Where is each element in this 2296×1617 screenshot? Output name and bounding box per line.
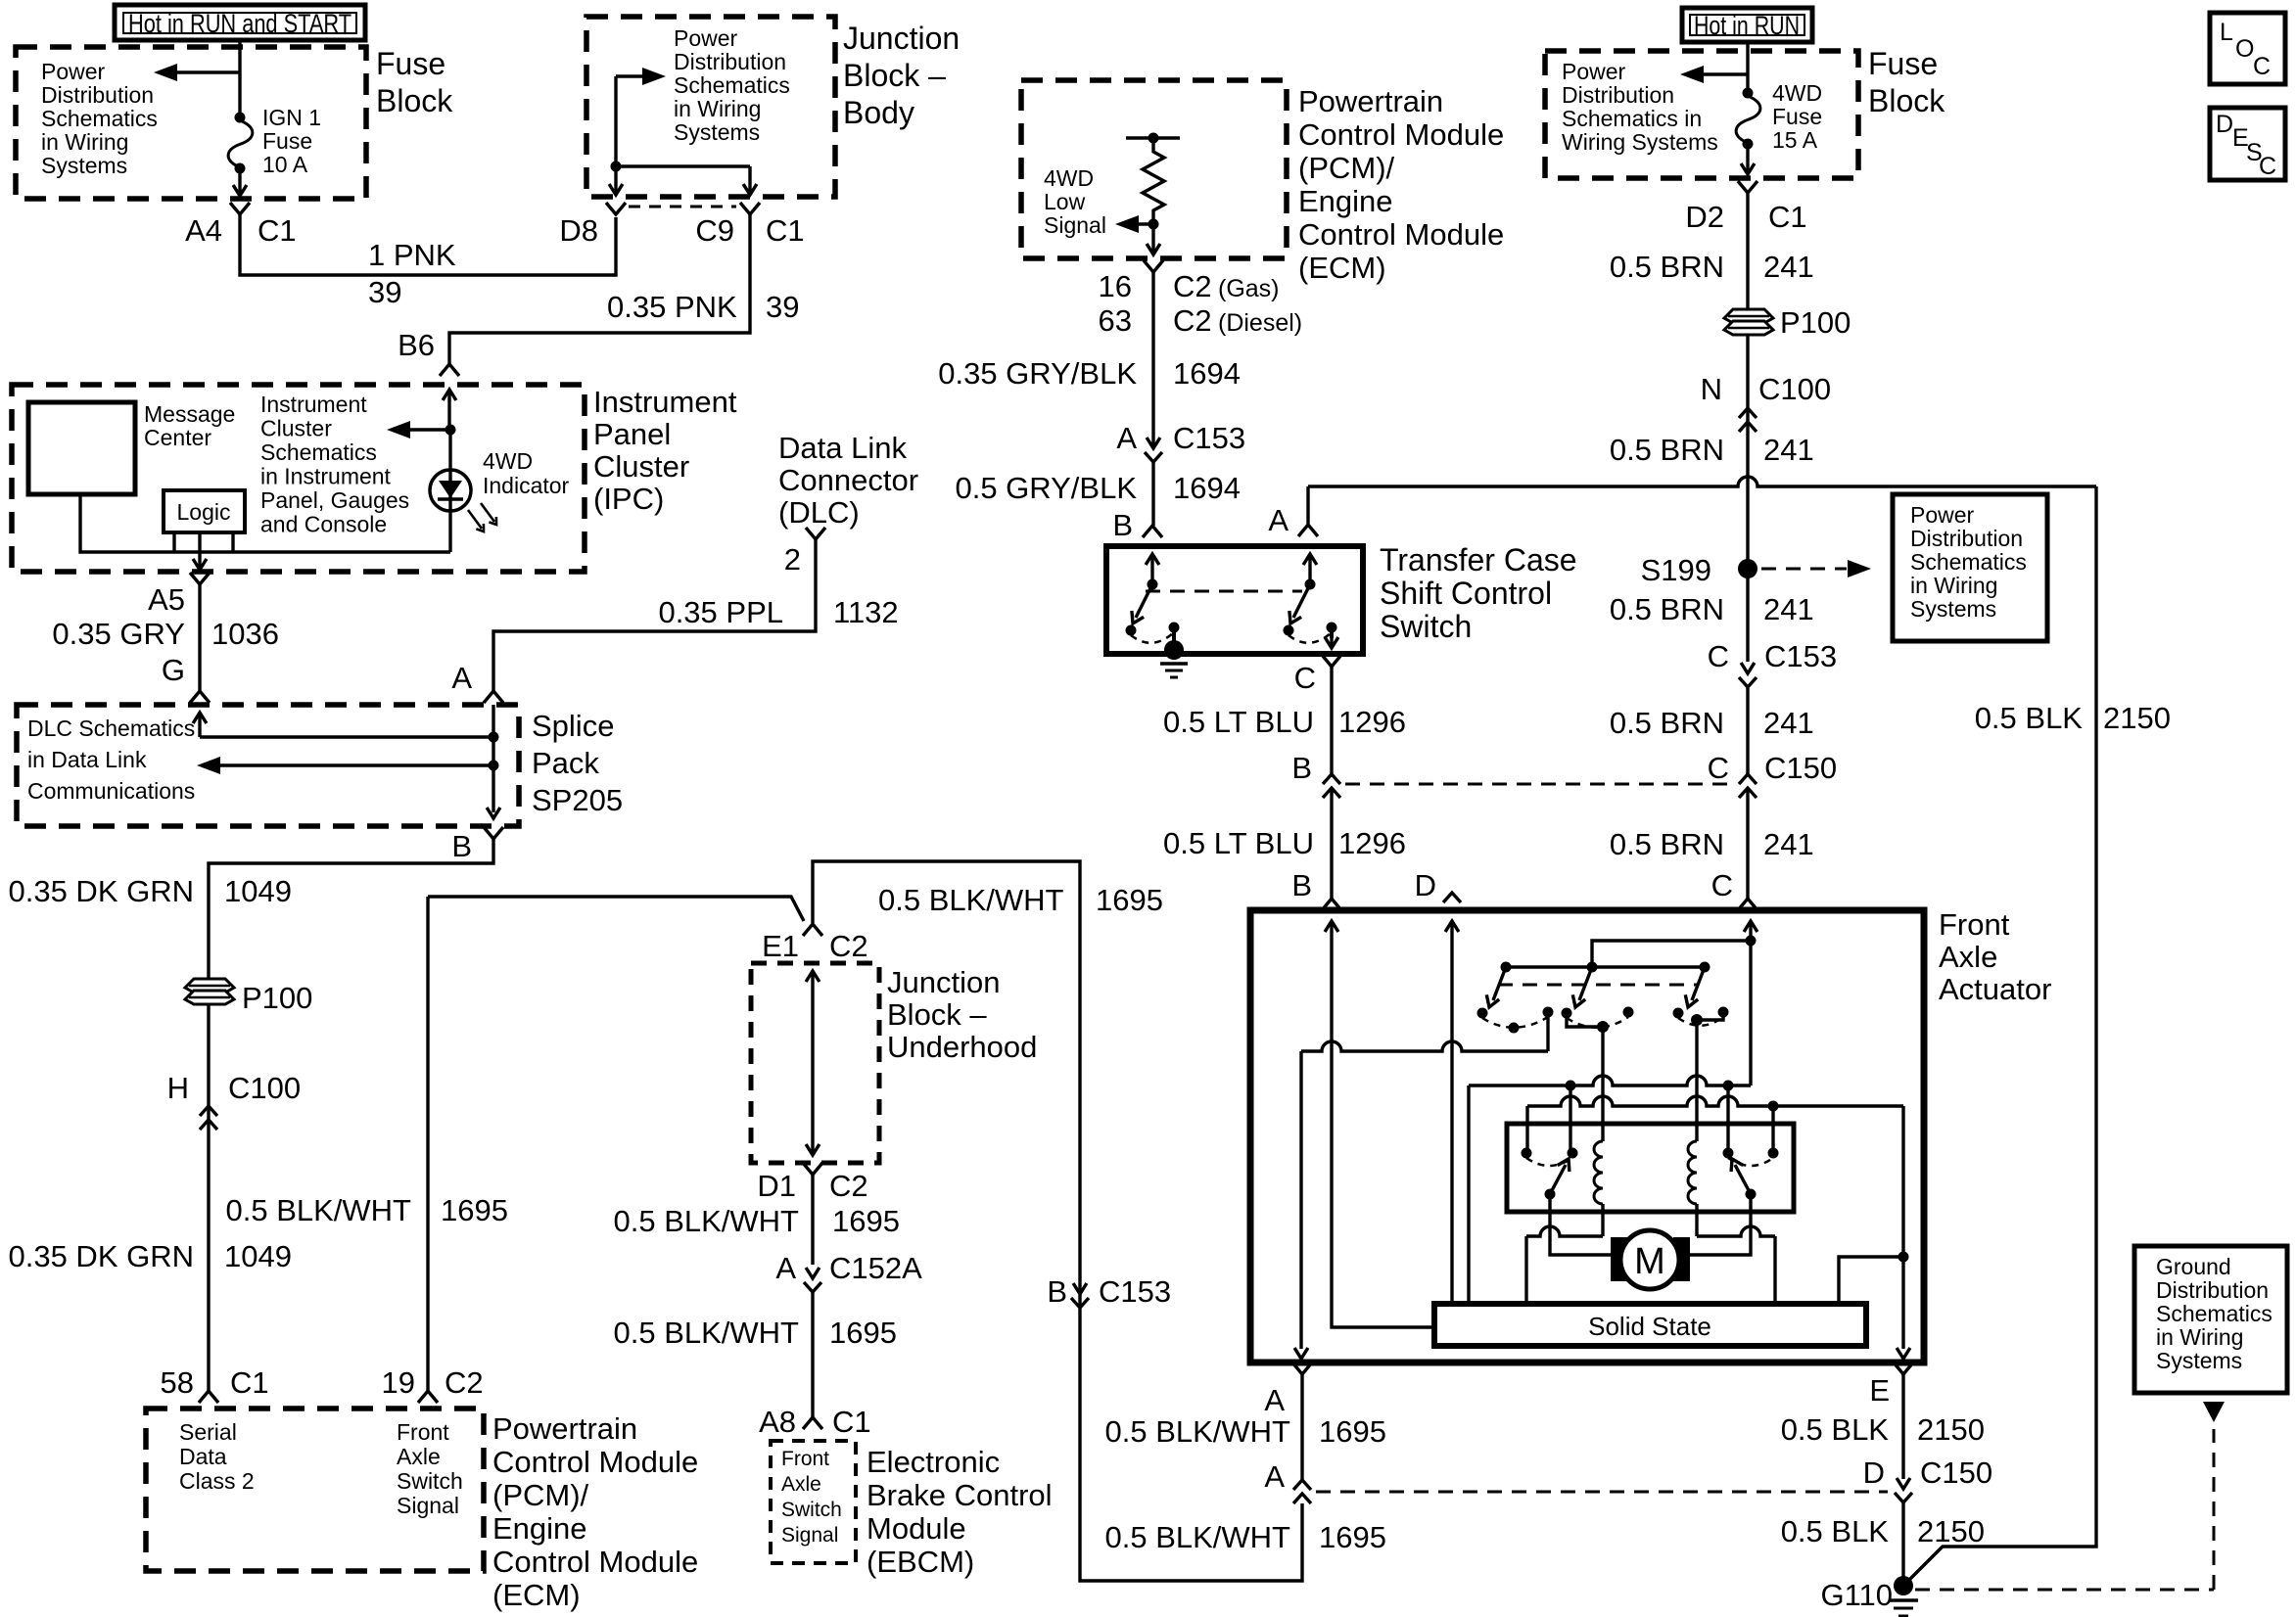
transfer case shift control switch box (1106, 546, 1363, 654)
svg-text:Cluster: Cluster (260, 416, 332, 441)
arrow to 4WD low signal (1115, 215, 1159, 233)
label 58 (161, 1365, 194, 1400)
label 1049 (lower) (224, 1239, 292, 1273)
svg-text:B6: B6 (398, 328, 435, 362)
connector E1 C2 (junction block underhood) (803, 924, 822, 936)
ground distribution schematics box (2134, 1246, 2287, 1393)
pass-through P100 (left) (185, 979, 234, 1004)
svg-text:Engine: Engine (1298, 184, 1393, 218)
switch output C (transfer case) (1325, 627, 1338, 648)
svg-text:Block: Block (376, 83, 453, 118)
svg-text:1036: 1036 (211, 617, 279, 651)
svg-text:in Wiring: in Wiring (2156, 1324, 2243, 1350)
svg-text:O: O (2235, 35, 2254, 63)
label G110 (1820, 1578, 1893, 1612)
dashed connector line C150 bottom (1316, 1491, 1888, 1494)
svg-text:D: D (1415, 868, 1436, 902)
svg-text:Panel, Gauges: Panel, Gauges (260, 487, 409, 513)
svg-text:(PCM)/: (PCM)/ (1298, 151, 1395, 185)
wire 0.5 BRN 241 to actuator C (1746, 788, 1749, 899)
svg-text:(DLC): (DLC) (778, 495, 860, 530)
svg-text:Brake Control: Brake Control (867, 1478, 1053, 1512)
svg-text:A: A (1268, 503, 1289, 537)
label 0.35 PNK (607, 290, 737, 324)
dashed connector line C150 (1345, 783, 1735, 786)
label C2 (PCM pin 19) (445, 1365, 484, 1400)
wire C to switch pivots (1592, 941, 1751, 967)
connector 19 C2 (PCM) (418, 1391, 438, 1403)
rail to solid state (left) (1469, 1076, 1751, 1304)
label 0.5 BLK/WHT (actuator A) (1105, 1414, 1291, 1449)
svg-text:Cluster: Cluster (593, 449, 689, 484)
connector DLC pin 2 (806, 528, 825, 539)
label 1049 (upper) (224, 874, 292, 908)
svg-text:(ECM): (ECM) (1298, 251, 1386, 285)
label 241 (3) (1763, 592, 1814, 626)
svg-text:19: 19 (382, 1365, 415, 1400)
svg-text:241: 241 (1763, 592, 1814, 626)
svg-text:C: C (2259, 153, 2276, 180)
actuator switch 1 (1477, 962, 1554, 1034)
label C (C150 right) (1708, 751, 1729, 785)
label H (167, 1071, 189, 1105)
junction dot at 4WD indicator feed (445, 425, 456, 436)
svg-text:Distribution: Distribution (1562, 82, 1674, 108)
connector D1 C2 (underhood) (803, 1163, 822, 1175)
fuse 4WD 15A symbol (1736, 88, 1760, 150)
svg-text:Power: Power (1562, 59, 1626, 84)
label 0.5 BLK/WHT (E1 horizontal) (878, 883, 1064, 917)
label 241 (1) (1763, 250, 1814, 284)
svg-text:Axle: Axle (397, 1444, 441, 1469)
connector D8 (junction block) (606, 203, 626, 214)
label Junction Block - Underhood (887, 965, 1037, 1064)
powertrain control module dashed box (top) (1021, 80, 1287, 258)
label D8 (559, 213, 598, 248)
wire 1 PNK 39 from A4 to junction block D8 (240, 214, 616, 275)
svg-text:S199: S199 (1641, 553, 1711, 587)
svg-text:2: 2 (784, 542, 801, 577)
wire relay left to motor (1550, 1194, 1611, 1255)
svg-text:58: 58 (161, 1365, 194, 1400)
connector A splice pack (484, 691, 503, 703)
svg-text:Distribution: Distribution (2156, 1277, 2269, 1303)
svg-text:Transfer Case: Transfer Case (1380, 542, 1577, 577)
logic box (164, 490, 245, 532)
junction dot C inner (1746, 936, 1757, 947)
fuse block (left) dashed box (16, 47, 366, 199)
relay switch left (1522, 1148, 1578, 1200)
svg-text:Signal: Signal (397, 1493, 459, 1518)
svg-text:10 A: 10 A (262, 152, 308, 177)
svg-text:A: A (775, 1251, 796, 1285)
svg-text:E: E (1869, 1373, 1890, 1408)
label Solid State (1588, 1312, 1711, 1341)
svg-text:C9: C9 (695, 213, 734, 248)
note Power Distribution Schematics in Wiring Systems (fuse block left) (41, 59, 158, 178)
switch pole A (transfer case) (1284, 554, 1337, 636)
svg-text:(Gas): (Gas) (1218, 275, 1280, 302)
svg-text:Signal: Signal (1044, 212, 1106, 238)
label A4 (185, 213, 222, 248)
svg-text:0.5 BLK: 0.5 BLK (1781, 1514, 1890, 1548)
splice rail with left arrow (197, 757, 493, 774)
splice pack SP205 dashed box (17, 705, 519, 826)
wire 0.5 BLK 2150 from actuator E (1901, 1374, 1904, 1479)
label Fuse Block (left) (376, 46, 453, 118)
label 0.5 BLK/WHT (below C150) (1105, 1520, 1291, 1554)
note Ground Distribution Schematics in Wiring Systems (2156, 1254, 2273, 1373)
label C1 (right) (1768, 200, 1807, 234)
svg-text:A4: A4 (185, 213, 222, 248)
svg-text:A: A (451, 661, 472, 695)
actuator input C arrow (1744, 921, 1757, 1086)
wire message center to logic to indicator (80, 494, 450, 552)
wire resistor output with arrow at PCM edge (1147, 224, 1160, 254)
connector A C150 chevrons (1293, 1480, 1311, 1503)
label Powertrain Control Module (PCM)/Engine Control Module (ECM) top (1298, 84, 1504, 285)
label P100 (left) (242, 981, 312, 1015)
junction block - underhood dashed box (751, 963, 879, 1163)
svg-text:Schematics: Schematics (260, 439, 377, 465)
svg-text:B: B (1112, 508, 1133, 542)
connector C9 C1 (junction block) (740, 203, 760, 214)
svg-text:1049: 1049 (224, 1239, 292, 1273)
svg-text:L: L (2220, 19, 2233, 46)
label A5 (148, 582, 185, 617)
wire right coil to solid state (1697, 1204, 1775, 1304)
svg-text:Front: Front (781, 1448, 829, 1470)
label 16 (1099, 269, 1132, 303)
splice pack bus SP205 (487, 705, 500, 818)
label Data Link Connector (DLC) (778, 431, 918, 530)
svg-text:C1: C1 (258, 213, 297, 248)
svg-text:A: A (1264, 1383, 1285, 1417)
label C1 (EBCM) (832, 1405, 871, 1439)
connector B into actuator (1322, 899, 1341, 910)
svg-text:1694: 1694 (1173, 356, 1241, 391)
svg-text:0.5 BLK/WHT: 0.5 BLK/WHT (614, 1204, 800, 1238)
svg-text:IGN 1: IGN 1 (262, 105, 321, 130)
svg-text:Switch: Switch (781, 1499, 842, 1521)
label Fuse Block (right) (1868, 46, 1945, 118)
label 1132 (833, 595, 899, 629)
connector G into splice pack (190, 691, 210, 703)
svg-text:B: B (1291, 868, 1312, 902)
connector A below actuator (1292, 1363, 1312, 1374)
label 39 (1 PNK) (368, 275, 401, 309)
svg-text:DLC Schematics: DLC Schematics (27, 716, 195, 741)
svg-text:0.5 BRN: 0.5 BRN (1610, 250, 1724, 284)
svg-text:1695: 1695 (441, 1193, 508, 1227)
svg-text:Junction: Junction (843, 21, 960, 56)
relay coil left (1594, 1141, 1603, 1204)
svg-text:Front: Front (1939, 907, 2010, 942)
svg-text:Switch: Switch (1380, 609, 1472, 644)
label C2 (Gas) (1173, 269, 1280, 303)
wire fuse output with arrow at fuse block edge (233, 168, 247, 196)
dashed contact arc A (transfer case) (1289, 632, 1332, 643)
label Splice Pack SP205 (532, 709, 623, 817)
svg-text:1695: 1695 (832, 1204, 900, 1238)
label 0.5 BLK/WHT (pcm19 wire) (226, 1193, 412, 1227)
label 1695 (D1) (832, 1204, 900, 1238)
svg-text:0.5 BRN: 0.5 BRN (1610, 706, 1724, 740)
label 0.5 BRN (2) (1610, 433, 1724, 467)
svg-text:Hot in RUN: Hot in RUN (1694, 11, 1800, 40)
label C2 (Diesel) (1173, 303, 1302, 338)
label 2150 (right) (2103, 701, 2171, 735)
svg-text:Block –: Block – (843, 58, 946, 93)
resistor 4WD low signal (1126, 133, 1180, 225)
svg-text:15 A: 15 A (1772, 127, 1818, 153)
label C153 (branch) (1099, 1274, 1171, 1309)
junction block body internal wires (609, 76, 757, 195)
wire 0.5 BLK 2150 from transfer case A-node to G110 (1308, 477, 2096, 1580)
svg-text:C: C (1294, 661, 1316, 695)
label Front Axle Actuator (1939, 907, 2051, 1006)
svg-text:C150: C150 (1920, 1455, 1992, 1490)
rail to E output (1527, 1096, 1910, 1359)
svg-text:D2: D2 (1685, 200, 1724, 234)
svg-text:D1: D1 (757, 1169, 796, 1203)
svg-text:241: 241 (1763, 250, 1814, 284)
svg-text:N: N (1701, 372, 1722, 406)
note Power Distribution Schematics in Wiring Systems (fuse block right) (1562, 59, 1718, 155)
svg-text:Signal: Signal (781, 1524, 838, 1547)
svg-text:Module: Module (867, 1511, 966, 1546)
label C (actuator input) (1711, 868, 1733, 902)
svg-text:1296: 1296 (1338, 705, 1406, 739)
label 63 (1099, 303, 1132, 338)
label D (C150 bottom) (1863, 1455, 1885, 1490)
wire from Hot in RUN into fuse block (1746, 42, 1749, 93)
svg-text:C153: C153 (1099, 1274, 1171, 1309)
svg-text:Center: Center (144, 425, 211, 450)
svg-text:0.5 BRN: 0.5 BRN (1610, 827, 1724, 861)
label 0.5 BLK (E) (1781, 1412, 1890, 1447)
label 1695 (E1 horizontal) (1096, 883, 1163, 917)
svg-text:Low: Low (1044, 189, 1086, 214)
label 0.35 PPL (658, 595, 783, 629)
svg-text:Communications: Communications (27, 778, 195, 804)
label A (C152A) (775, 1251, 796, 1285)
label B (C153 branch) (1047, 1274, 1067, 1309)
label Powertrain Control Module (PCM)/Engine Control Module (ECM) bottom (492, 1411, 698, 1612)
label A8 (759, 1405, 796, 1439)
splice S199 (1738, 559, 1757, 578)
svg-text:Schematics: Schematics (41, 106, 158, 131)
connector C100 (left) chevrons (200, 1106, 217, 1130)
note 4WD Low Signal (1044, 165, 1106, 238)
label C152A (829, 1251, 922, 1285)
svg-text:Instrument: Instrument (593, 385, 737, 419)
switch pole B (transfer case) (1126, 554, 1180, 636)
actuator switch 3 (1673, 962, 1729, 1026)
label 2150 (G110) (1917, 1514, 1985, 1548)
connector C100 (right) chevrons (1739, 408, 1757, 432)
svg-text:4WD: 4WD (1044, 165, 1094, 191)
label 0.35 DK GRN (lower) (8, 1239, 194, 1273)
label Junction Block - Body (843, 21, 960, 130)
wire 0.5 LT BLU 1296 upper (1330, 667, 1333, 774)
label Logic (177, 499, 231, 525)
power distribution schematics box (solid) (1893, 494, 2047, 641)
svg-text:Solid State: Solid State (1588, 1312, 1711, 1341)
LOC reference box (2210, 13, 2285, 84)
label 0.5 BRN (3) (1610, 592, 1724, 626)
power label box 'Hot in RUN' (1682, 8, 1812, 42)
wire 0.5 BLK 2150 to G110 (1901, 1502, 1904, 1580)
svg-text:Engine: Engine (492, 1511, 587, 1546)
connector A transfer case switch (1298, 525, 1318, 536)
label Message Center (144, 401, 235, 450)
svg-text:0.5 BLK/WHT: 0.5 BLK/WHT (878, 883, 1064, 917)
connector 58 C1 (PCM) (199, 1391, 218, 1403)
note Front Axle Switch Signal (PCM) (397, 1419, 463, 1518)
label 0.35 DK GRN (upper) (8, 874, 194, 908)
wire 0.35 DK GRN 1049 splice B to PCM 58 (209, 839, 493, 979)
label C153 (right) (1764, 639, 1837, 673)
connector A5 (IPC output) (190, 573, 210, 584)
svg-text:Power: Power (674, 25, 738, 51)
svg-text:Message: Message (144, 401, 235, 427)
connector D2 C1 (right fuse block) (1738, 181, 1757, 193)
svg-text:Splice: Splice (532, 709, 614, 743)
wire switch2 to left coil (1567, 1013, 1609, 1141)
svg-text:in Wiring: in Wiring (41, 129, 128, 155)
svg-text:39: 39 (766, 290, 799, 324)
svg-text:1695: 1695 (1319, 1520, 1386, 1554)
dashed connector line D8-C9 (629, 206, 736, 208)
svg-text:C153: C153 (1173, 421, 1245, 455)
svg-text:Shift Control: Shift Control (1380, 576, 1552, 611)
svg-text:0.5 LT BLU: 0.5 LT BLU (1163, 705, 1314, 739)
svg-text:C152A: C152A (829, 1251, 922, 1285)
svg-text:0.5 BLK: 0.5 BLK (1781, 1412, 1890, 1447)
svg-text:in Wiring: in Wiring (674, 96, 761, 121)
label Transfer Case Shift Control Switch (1380, 542, 1577, 644)
label 0.5 BRN (1) (1610, 250, 1724, 284)
label 2150 (E) (1917, 1412, 1985, 1447)
svg-text:16: 16 (1099, 269, 1132, 303)
svg-text:0.5 GRY/BLK: 0.5 GRY/BLK (955, 471, 1137, 505)
label E (actuator output) (1869, 1373, 1890, 1408)
dashed arrow S199 to power distribution (1761, 560, 1871, 577)
svg-text:Switch: Switch (397, 1468, 463, 1494)
wire below P100 right (1746, 335, 1749, 564)
label 1296 (lower) (1338, 826, 1406, 860)
motor M (1611, 1230, 1690, 1289)
connector C150 (BRN side) (1739, 774, 1757, 798)
svg-text:0.35 GRY/BLK: 0.35 GRY/BLK (938, 356, 1137, 391)
actuator relay box (1507, 1124, 1794, 1212)
label 0.5 BLK (G110) (1781, 1514, 1890, 1548)
svg-text:C1: C1 (1768, 200, 1807, 234)
connector E below actuator (1894, 1363, 1913, 1374)
wire 0.35 GRY/BLK 1694 (1151, 272, 1154, 446)
svg-text:Schematics: Schematics (2156, 1301, 2273, 1326)
svg-text:Class 2: Class 2 (179, 1468, 255, 1494)
svg-text:Instrument: Instrument (260, 392, 367, 417)
svg-text:Fuse: Fuse (262, 128, 312, 154)
label D (actuator) (1415, 868, 1436, 902)
svg-text:M: M (1634, 1241, 1665, 1282)
label 1 PNK (368, 238, 456, 272)
splice rail to G with up arrow (193, 713, 493, 737)
arrow to power distribution schematics (left fuse block) (154, 64, 240, 81)
svg-text:C: C (2253, 53, 2271, 80)
svg-text:1 PNK: 1 PNK (368, 238, 456, 272)
svg-text:Junction: Junction (887, 965, 1000, 999)
label C150 (right) (1764, 751, 1837, 785)
svg-text:D8: D8 (559, 213, 598, 248)
svg-text:in Instrument: in Instrument (260, 464, 392, 489)
label C153 (top) (1173, 421, 1245, 455)
label B6 (398, 328, 435, 362)
wire 0.5 BLK/WHT 1695 from actuator A (1300, 1374, 1303, 1480)
connector C below transfer case switch (1322, 655, 1341, 667)
svg-text:0.5 BRN: 0.5 BRN (1610, 433, 1724, 467)
connector A8 C1 (EBCM) (803, 1417, 822, 1429)
solid state box (1434, 1304, 1866, 1346)
label B (actuator input) (1291, 868, 1312, 902)
label Instrument Panel Cluster (IPC) (593, 385, 737, 516)
wire switch3 to right coil (1691, 1012, 1723, 1141)
connector B transfer case switch (1143, 526, 1162, 537)
svg-text:Indicator: Indicator (483, 473, 570, 498)
svg-text:Logic: Logic (177, 499, 231, 525)
svg-text:0.35 PPL: 0.35 PPL (658, 595, 783, 629)
svg-text:1694: 1694 (1173, 471, 1241, 505)
label 19 (382, 1365, 415, 1400)
svg-text:Fuse: Fuse (376, 46, 445, 81)
actuator input D connector (1443, 893, 1461, 1304)
svg-text:Axle: Axle (781, 1473, 821, 1496)
svg-text:C2: C2 (1173, 303, 1212, 338)
svg-text:0.5 BLK/WHT: 0.5 BLK/WHT (1105, 1414, 1291, 1449)
wire 0.35 PPL 1132 from DLC to splice pack A (493, 539, 816, 691)
label 4WD Fuse 15 A (1772, 80, 1822, 153)
label D1 (757, 1169, 796, 1203)
svg-text:1695: 1695 (1096, 883, 1163, 917)
label C2 (D1) (829, 1169, 868, 1203)
label 1036 (211, 617, 279, 651)
arrow to power distribution schematics (right fuse block) (1680, 66, 1748, 83)
label P100 (right) (1780, 305, 1851, 340)
svg-text:C: C (1708, 639, 1729, 673)
svg-text:P100: P100 (1780, 305, 1851, 340)
svg-text:Schematics: Schematics (1910, 549, 2027, 575)
svg-text:Data Link: Data Link (778, 431, 907, 465)
svg-text:1695: 1695 (1319, 1414, 1386, 1449)
powertrain control module dashed box (bottom) (146, 1409, 484, 1571)
label D2 (1685, 200, 1724, 234)
svg-text:Fuse: Fuse (1772, 104, 1822, 129)
label 0.5 BLK (right) (1975, 701, 2084, 735)
svg-text:Front: Front (397, 1419, 449, 1445)
label G (162, 653, 185, 687)
svg-text:(ECM): (ECM) (492, 1578, 581, 1612)
svg-text:0.5 BLK/WHT: 0.5 BLK/WHT (226, 1193, 412, 1227)
label 1695 (actuator A) (1319, 1414, 1386, 1449)
svg-text:and Console: and Console (260, 512, 387, 537)
label C1 (fuse block) (258, 213, 297, 248)
label C150 (bottom) (1920, 1455, 1992, 1490)
svg-text:P100: P100 (242, 981, 312, 1015)
svg-text:Block: Block (1868, 83, 1945, 118)
svg-text:Control Module: Control Module (492, 1445, 698, 1479)
